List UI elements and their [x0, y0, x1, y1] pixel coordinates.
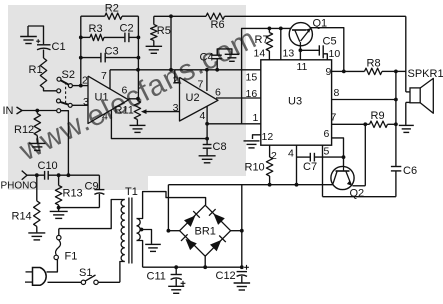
wire plug to S1	[48, 281, 82, 283]
capacitor C1	[36, 39, 65, 53]
ground G4	[146, 41, 163, 54]
svg-text:9: 9	[326, 66, 332, 78]
op-amp U1	[82, 70, 129, 124]
wire	[395, 71, 397, 166]
svg-text:C11: C11	[147, 271, 166, 283]
svg-text:C10: C10	[38, 160, 58, 172]
svg-text:7: 7	[198, 79, 204, 91]
resistor R10	[245, 145, 273, 185]
wire riser right	[241, 185, 243, 268]
svg-text:3: 3	[173, 102, 179, 114]
svg-text:C8: C8	[213, 141, 227, 153]
capacitor C7	[297, 153, 344, 173]
wire to U1 pin3	[72, 104, 88, 106]
wire A supply	[110, 69, 175, 71]
svg-text:C3: C3	[105, 46, 119, 58]
wire	[136, 120, 138, 126]
op-amp U2	[173, 75, 221, 123]
wire U2 pin4	[206, 107, 208, 145]
wire Q2 emitter	[353, 124, 366, 186]
resistor R9	[370, 110, 396, 128]
wiper arrow	[141, 109, 180, 114]
capacitor C4	[200, 49, 232, 70]
svg-text:C5: C5	[323, 36, 337, 48]
svg-text:4: 4	[200, 110, 206, 122]
connector PHONO	[1, 171, 38, 192]
svg-text:IN: IN	[3, 105, 14, 117]
wire pin5 column	[322, 145, 324, 197]
connector IN	[3, 105, 23, 117]
wire vplus rail	[168, 184, 333, 186]
wire bridge left	[168, 230, 179, 232]
resistor R1	[29, 58, 47, 88]
resistor R7	[255, 28, 273, 59]
wire	[22, 110, 57, 112]
node	[205, 68, 209, 72]
svg-text:C12: C12	[216, 270, 236, 282]
node	[35, 173, 39, 177]
svg-text:7: 7	[101, 70, 107, 82]
svg-text:C1: C1	[52, 41, 66, 53]
node	[268, 27, 272, 31]
svg-text:4: 4	[102, 111, 108, 123]
node	[394, 70, 398, 74]
resistor R14	[12, 175, 41, 232]
svg-text:C6: C6	[403, 165, 417, 177]
wire bus	[242, 28, 292, 123]
node	[205, 137, 209, 141]
svg-text:BR1: BR1	[195, 226, 216, 238]
node	[174, 265, 178, 269]
node	[79, 36, 83, 40]
ground G10	[168, 286, 184, 293]
svg-text:U1: U1	[95, 92, 109, 104]
svg-text:S2: S2	[62, 69, 75, 81]
ground G8	[399, 125, 414, 132]
resistor R12	[14, 111, 41, 137]
wire plug to F1	[47, 260, 58, 272]
node	[295, 183, 299, 187]
svg-text:16: 16	[246, 88, 258, 100]
svg-text:R7: R7	[255, 34, 269, 46]
wire Q1 collector	[310, 28, 343, 72]
wire	[395, 171, 397, 197]
node	[268, 183, 272, 187]
capacitor C6	[391, 165, 417, 177]
node	[240, 265, 244, 269]
svg-text:6: 6	[122, 85, 128, 97]
scan panel gray	[8, 5, 246, 190]
diode D1	[184, 211, 200, 227]
svg-text:13: 13	[283, 48, 295, 60]
switch S1	[79, 267, 98, 284]
node	[136, 68, 140, 72]
wire top rail	[154, 15, 206, 17]
svg-text:2: 2	[271, 150, 277, 162]
svg-text:C4: C4	[200, 52, 214, 64]
wire pin9	[332, 70, 344, 72]
ground G1	[20, 26, 37, 44]
ground G5	[225, 54, 240, 61]
wire	[27, 174, 44, 176]
svg-text:12: 12	[262, 131, 274, 143]
fuse F1	[54, 229, 77, 263]
svg-text:1: 1	[253, 112, 259, 124]
capacitor C3	[81, 46, 139, 63]
wire vplus riser	[167, 185, 169, 231]
wire	[28, 26, 44, 44]
plug P1	[25, 268, 46, 286]
svg-text:U3: U3	[288, 96, 302, 108]
svg-text:5: 5	[324, 146, 330, 158]
node	[137, 36, 141, 40]
node R12 top	[35, 109, 39, 113]
svg-text:15: 15	[246, 72, 258, 84]
svg-text:T1: T1	[125, 186, 138, 198]
wire S1 to T1	[98, 281, 120, 283]
ground G13	[28, 233, 45, 240]
wire pin4	[296, 145, 298, 185]
svg-text:R13: R13	[63, 188, 83, 200]
svg-text:R9: R9	[371, 110, 385, 122]
svg-text:S1: S1	[79, 267, 92, 279]
resistor R3	[81, 23, 125, 41]
switch S2	[57, 69, 75, 113]
wire center tap	[142, 230, 152, 244]
ground G3	[130, 125, 146, 132]
node	[203, 265, 207, 269]
wire U1 pin4	[111, 110, 206, 138]
node	[394, 98, 398, 102]
wire bottom	[323, 196, 396, 198]
svg-text:R12: R12	[14, 124, 34, 136]
wire A cont	[175, 69, 261, 71]
wire S2 to phono line	[61, 111, 69, 176]
bridge BR1 outline	[180, 205, 231, 256]
capacitor C8	[203, 141, 227, 155]
capacitor C10	[38, 160, 58, 180]
wire	[137, 16, 139, 98]
node	[342, 155, 346, 159]
node	[240, 229, 244, 233]
svg-text:2: 2	[173, 75, 179, 87]
wire U2 output	[216, 97, 261, 99]
wire U2 pin7 stub	[206, 70, 208, 91]
wire pin1 link	[207, 123, 261, 125]
ground G12	[50, 208, 68, 219]
capacitor C5	[300, 36, 336, 60]
node	[79, 84, 83, 88]
node center tap	[140, 228, 144, 232]
capacitor C12	[216, 265, 249, 283]
node	[299, 48, 303, 52]
node	[205, 122, 209, 126]
svg-text:SPKR1: SPKR1	[408, 68, 443, 80]
wire	[396, 70, 406, 72]
node	[169, 14, 173, 18]
svg-text:C7: C7	[303, 161, 317, 173]
svg-text:C2: C2	[120, 23, 134, 35]
wire Q1 emitter to pin11	[299, 42, 301, 60]
wire dc bottom	[143, 266, 242, 268]
svg-text:3: 3	[83, 96, 89, 108]
svg-text:R5: R5	[157, 25, 171, 37]
svg-text:R8: R8	[367, 58, 381, 70]
node	[342, 70, 346, 74]
node	[79, 56, 83, 60]
resistor R5	[151, 16, 171, 40]
svg-text:R11: R11	[115, 105, 134, 117]
capacitor C9	[85, 175, 105, 207]
wire	[48, 174, 99, 176]
svg-text:U2: U2	[186, 92, 200, 104]
ground G2	[29, 136, 46, 151]
wire primary bottom	[120, 262, 125, 283]
wire secondary bottom	[137, 241, 143, 268]
resistor R8	[344, 58, 396, 75]
svg-text:R14: R14	[12, 211, 32, 223]
svg-text:7: 7	[331, 112, 337, 124]
transistor Q2	[331, 166, 364, 199]
transformer T1	[121, 186, 140, 264]
wire U2 pin2 stub	[175, 70, 180, 83]
svg-text:C9: C9	[85, 181, 99, 193]
svg-text:R10: R10	[245, 162, 265, 174]
wire U1 pin7 stub	[109, 70, 111, 89]
wire rail corner	[405, 16, 407, 92]
watermark	[14, 22, 263, 168]
IC U3	[246, 48, 341, 163]
resistor R6	[206, 13, 225, 31]
svg-text:R1: R1	[29, 64, 43, 76]
wire primary top	[59, 200, 125, 229]
node	[169, 68, 173, 72]
wire top rail right	[225, 15, 406, 17]
ground G11	[234, 283, 251, 290]
svg-text:14: 14	[254, 48, 266, 60]
wire pin6	[332, 138, 344, 167]
wire pin8	[332, 99, 396, 101]
potentiometer R11	[115, 101, 141, 120]
wire bridge right	[231, 230, 242, 232]
node	[363, 122, 367, 126]
node	[167, 229, 171, 233]
speaker SPKR1	[406, 68, 443, 113]
svg-text:Q2: Q2	[350, 188, 365, 200]
wire pin13	[280, 28, 282, 59]
label BR1	[195, 226, 216, 238]
node	[57, 173, 61, 177]
node	[67, 173, 71, 177]
capacitor C2	[120, 23, 139, 43]
svg-text:R6: R6	[211, 19, 225, 31]
resistor R2	[81, 3, 139, 20]
transistor Q1	[289, 18, 327, 46]
diode D3	[181, 234, 197, 250]
node	[215, 68, 219, 72]
svg-text:8: 8	[334, 87, 340, 99]
wire pin7	[332, 123, 370, 125]
ground G7	[244, 135, 261, 148]
node	[394, 122, 398, 126]
wire rail drop	[170, 16, 172, 70]
node	[57, 206, 61, 210]
ground G9	[145, 244, 161, 251]
svg-text:10: 10	[329, 48, 341, 60]
node	[279, 27, 283, 31]
wire to U1 pin2	[72, 85, 88, 87]
wire feedback bus	[80, 16, 82, 85]
svg-text:11: 11	[297, 61, 308, 73]
ground G6	[199, 156, 216, 163]
capacitor C11	[147, 267, 186, 286]
svg-text:R2: R2	[105, 3, 119, 15]
svg-text:6: 6	[215, 87, 221, 99]
wire U1 output	[129, 98, 138, 100]
node U1 out	[136, 97, 140, 101]
wire bridge bottom	[204, 256, 206, 267]
svg-text:R3: R3	[89, 23, 103, 35]
svg-text:2: 2	[82, 75, 88, 87]
resistor R13	[55, 175, 82, 207]
svg-text:6: 6	[324, 128, 330, 140]
svg-text:PHONO: PHONO	[1, 181, 38, 192]
svg-text:F1: F1	[65, 251, 78, 263]
diode D2	[209, 209, 225, 225]
node	[137, 56, 141, 60]
wire	[44, 88, 57, 91]
wire	[59, 207, 100, 209]
diode D4	[210, 236, 226, 252]
wire secondary top	[137, 192, 206, 219]
wire spkr gnd	[405, 102, 407, 125]
svg-text:4: 4	[288, 148, 294, 160]
wire	[43, 50, 45, 59]
